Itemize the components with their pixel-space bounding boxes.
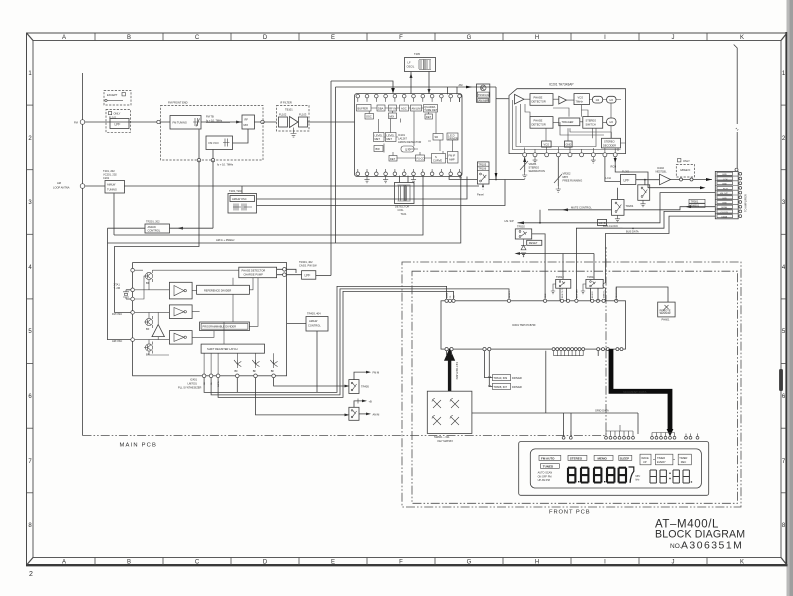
amp buffer box 1 bbox=[169, 282, 192, 299]
svg-text:9A: 9A bbox=[488, 375, 491, 379]
wire bus DATA bbox=[218, 291, 453, 397]
amp buffer box 2 bbox=[169, 305, 192, 319]
ground VR202 bbox=[556, 186, 561, 192]
node front end bottom right bbox=[211, 159, 214, 162]
svg-text:AM/FM DETECTOR: AM/FM DETECTOR bbox=[398, 140, 421, 144]
svg-text:GND: GND bbox=[722, 203, 727, 205]
block AM/LW CONTROL bbox=[145, 224, 170, 233]
svg-text:TR401, 402: TR401, 402 bbox=[299, 260, 313, 264]
wires latch pins down bbox=[204, 353, 218, 374]
svg-text:FM M: FM M bbox=[373, 371, 380, 375]
svg-text:DATA: DATA bbox=[446, 292, 449, 298]
svg-text:KEY MATRIX: KEY MATRIX bbox=[438, 439, 454, 443]
scan smudge on right frame bbox=[779, 369, 783, 391]
LCD glass outline bbox=[530, 449, 701, 488]
wire LCH out bbox=[605, 157, 621, 182]
transistor latch out c bbox=[270, 360, 277, 373]
svg-text:S: S bbox=[435, 155, 437, 159]
svg-text:ON OFF PM: ON OFF PM bbox=[538, 475, 552, 478]
svg-text:TUNING: TUNING bbox=[107, 188, 117, 192]
filter FL102 bbox=[279, 117, 288, 127]
svg-text:AM: AM bbox=[459, 83, 463, 87]
svg-text:fo + 10. 7MHz: fo + 10. 7MHz bbox=[217, 163, 234, 167]
wire AM/LW control line bbox=[108, 227, 214, 229]
svg-text:A: A bbox=[62, 35, 66, 41]
switch TR204 mute R bbox=[612, 200, 634, 216]
wire AM osc out 1 bbox=[257, 177, 468, 200]
wire TR405 out FM M bbox=[354, 372, 366, 380]
block STEREO SWITCH bbox=[583, 117, 603, 129]
block T101 detector coil bbox=[395, 183, 415, 204]
svg-text:PROGRAMMABLE DIVIDER: PROGRAMMABLE DIVIDER bbox=[203, 325, 237, 329]
svg-text:COIL: COIL bbox=[398, 208, 405, 212]
svg-text:GRID DATA: GRID DATA bbox=[595, 408, 609, 412]
amp loop filter triangle bbox=[559, 96, 567, 104]
connector row label cells bbox=[717, 172, 733, 218]
svg-text:MIX: MIX bbox=[244, 123, 249, 127]
wire AM line to amp bbox=[336, 86, 497, 88]
7seg digit seven bbox=[629, 467, 634, 483]
border thick bottom line bbox=[26, 564, 788, 566]
block AM/LW TUNING bbox=[105, 181, 125, 194]
svg-text:J: J bbox=[672, 35, 675, 41]
pot VR202 wire bbox=[557, 157, 559, 186]
box EXCEPT variant note bbox=[104, 91, 131, 106]
svg-text:PH601: PH601 bbox=[662, 318, 670, 322]
filter LPF FM input bbox=[110, 119, 129, 129]
block FS-CO bbox=[416, 155, 425, 161]
block GND small bbox=[565, 141, 573, 147]
svg-text:PHASE: PHASE bbox=[534, 96, 543, 100]
svg-text:CLOCK: CLOCK bbox=[721, 212, 729, 214]
svg-text:FM: FM bbox=[74, 121, 78, 125]
wires TR612 pins bbox=[560, 254, 567, 301]
wires latch to transistors bbox=[237, 353, 273, 364]
svg-text:KEY RETURN: KEY RETURN bbox=[455, 362, 459, 379]
right numbers 1-8 bbox=[782, 71, 786, 529]
pins IC601 top bbox=[445, 299, 618, 302]
divider 1/2 b bbox=[607, 96, 616, 103]
block BUFFER bbox=[357, 105, 372, 112]
svg-text:76kHz: 76kHz bbox=[576, 99, 584, 103]
svg-text:AM/LW: AM/LW bbox=[107, 183, 116, 187]
svg-text:AM/LW: AM/LW bbox=[148, 225, 157, 229]
block MIX bbox=[389, 113, 397, 119]
wire AM line bbox=[85, 185, 479, 187]
svg-text:BW: BW bbox=[376, 147, 381, 151]
wire HS S/P bbox=[518, 193, 716, 223]
wire FM antenna vertical bbox=[734, 45, 738, 170]
block key drivers TR610 609 bbox=[488, 375, 522, 390]
svg-text:T205: T205 bbox=[414, 52, 420, 56]
left tick marks bbox=[27, 105, 34, 493]
wire LPF to tune line bbox=[316, 275, 331, 277]
label TR501 SW501 bbox=[689, 199, 705, 207]
wire BUS DATA bbox=[606, 216, 716, 301]
svg-text:LOOP ANTNA: LOOP ANTNA bbox=[53, 186, 70, 190]
svg-text:SW501: SW501 bbox=[691, 204, 700, 208]
svg-text:7. 2M: 7. 2M bbox=[114, 286, 121, 290]
svg-text:RCH: RCH bbox=[723, 188, 728, 190]
scan shadow band right edge bbox=[787, 0, 793, 596]
svg-text:DETECTOR: DETECTOR bbox=[395, 205, 409, 209]
svg-text:BF: BF bbox=[271, 369, 275, 373]
svg-text:PHASE: PHASE bbox=[534, 119, 543, 123]
ground VR201 bbox=[522, 172, 527, 178]
block REFERENCE DIVIDER bbox=[197, 285, 250, 294]
wire RCH out bbox=[615, 157, 700, 188]
transistor latch out a bbox=[234, 360, 241, 373]
svg-text:C: C bbox=[195, 560, 200, 566]
node AM antenna terminal bbox=[80, 184, 85, 189]
svg-text:SENSOR: SENSOR bbox=[660, 311, 671, 315]
svg-text:CHARGE PUMP: CHARGE PUMP bbox=[244, 273, 264, 277]
svg-text:TUNED: TUNED bbox=[543, 464, 554, 468]
svg-text:FRONT PCB: FRONT PCB bbox=[549, 510, 591, 516]
transistor latch out b bbox=[252, 360, 259, 373]
block phase detector 1 bbox=[530, 94, 553, 106]
svg-text:HS. S/P: HS. S/P bbox=[505, 219, 514, 223]
svg-text:CONTROL: CONTROL bbox=[148, 229, 161, 233]
divider 1/2 c bbox=[607, 118, 616, 126]
wire AM fo line bbox=[108, 176, 461, 243]
clock decimal bbox=[691, 481, 692, 482]
wire into IC201 buffer bbox=[496, 98, 509, 100]
svg-text:MAIN B+: MAIN B+ bbox=[603, 289, 606, 298]
label RESET boxed bbox=[527, 240, 542, 245]
indicator FM AUTO bbox=[539, 455, 561, 460]
IC IC401 outline bbox=[133, 263, 287, 376]
block LEVEL MET1 bbox=[374, 133, 385, 142]
svg-text:E: E bbox=[331, 35, 335, 41]
svg-text:FS-CO: FS-CO bbox=[417, 157, 425, 161]
svg-text:DATA: DATA bbox=[217, 381, 220, 387]
svg-text:TR610, 609: TR610, 609 bbox=[494, 376, 508, 380]
wires PLL internal bbox=[135, 270, 258, 355]
svg-text:B: B bbox=[127, 560, 131, 566]
display connector pins bbox=[562, 436, 699, 439]
indicator TIMER EVERY bbox=[656, 454, 673, 465]
wire AGC line to IC101 bbox=[114, 176, 423, 235]
svg-text:FM OSC: FM OSC bbox=[112, 312, 122, 316]
svg-text:FM IF: FM IF bbox=[449, 154, 456, 158]
left numbers 1-8 bbox=[28, 71, 32, 529]
svg-text:TURE DET: TURE DET bbox=[424, 108, 437, 112]
wire GRID DATA bbox=[598, 351, 638, 434]
FRONT PCB boundary chain outer bbox=[402, 262, 741, 507]
node PLL charge pump out a bbox=[283, 268, 287, 272]
amp MPX input buffer bbox=[515, 94, 525, 104]
svg-text:FM VCO: FM VCO bbox=[209, 141, 219, 145]
svg-text:IF FILTER: IF FILTER bbox=[280, 101, 292, 105]
svg-text:LF: LF bbox=[408, 61, 411, 65]
svg-text:TR608, 607: TR608, 607 bbox=[494, 385, 508, 389]
svg-text:FM TUNING: FM TUNING bbox=[173, 121, 187, 125]
svg-text:TO AMPLIFIER: TO AMPLIFIER bbox=[744, 194, 748, 212]
wire T205 to IC101 pins bbox=[411, 72, 429, 95]
svg-text:BF: BF bbox=[146, 327, 150, 331]
svg-text:HIGH: HIGH bbox=[722, 207, 728, 209]
wire bus CE bbox=[204, 286, 447, 392]
wire FM osc to PLL bbox=[115, 160, 200, 312]
svg-text:SLEEP: SLEEP bbox=[620, 456, 629, 460]
svg-text:STEREO: STEREO bbox=[604, 139, 615, 143]
wires drivers bbox=[485, 351, 493, 387]
svg-text:K: K bbox=[740, 35, 744, 41]
transistor buffer b bbox=[144, 316, 153, 331]
block LPF small bbox=[542, 141, 552, 147]
svg-text:D: D bbox=[263, 560, 268, 566]
wire AM amp down to composite bbox=[495, 87, 497, 180]
svg-text:AUTO SCAN: AUTO SCAN bbox=[538, 471, 553, 474]
top letters A-K bbox=[62, 35, 744, 41]
transistor TR406 bbox=[349, 407, 359, 420]
MAIN PCB boundary chain box bbox=[83, 247, 607, 436]
node FM junction bbox=[157, 120, 160, 123]
svg-text:AM OSC: AM OSC bbox=[112, 339, 122, 343]
clock colon bbox=[669, 473, 670, 474]
svg-text:DRIVER: DRIVER bbox=[448, 136, 458, 140]
node PLL charge pump out b bbox=[283, 273, 287, 277]
indicator SLEEP bbox=[619, 455, 632, 460]
FRONT PCB boundary chain inner bbox=[412, 271, 738, 503]
ground pins IC101 bottom bbox=[364, 176, 369, 183]
svg-text:TR405: TR405 bbox=[361, 385, 369, 389]
top tick marks bbox=[95, 33, 707, 41]
indicator WAKE UP bbox=[640, 454, 651, 465]
block SHIFT REGISTER LATCH bbox=[201, 344, 264, 353]
svg-text:STEREO: STEREO bbox=[586, 119, 597, 123]
connector row labels bbox=[720, 174, 729, 218]
box ONLY variant note bbox=[106, 110, 131, 133]
svg-text:C201: C201 bbox=[103, 176, 110, 180]
svg-text:RF: RF bbox=[245, 118, 249, 122]
svg-text:GND: GND bbox=[722, 174, 727, 176]
wire FM line bbox=[85, 121, 355, 123]
ground TR203 bbox=[640, 200, 645, 207]
wire detector coil leads bbox=[400, 176, 409, 183]
wire bus CL bbox=[211, 289, 509, 395]
svg-text:BUS CL O: BUS CL O bbox=[562, 288, 564, 298]
amp buffer box 3 bbox=[169, 331, 192, 345]
svg-text:VC201, 202: VC201, 202 bbox=[103, 173, 117, 177]
wire pin6 to TR405 bbox=[274, 378, 345, 386]
svg-text:AM AMP: AM AMP bbox=[479, 98, 489, 102]
block DET2 bbox=[389, 156, 397, 162]
svg-text:SHIFT REGISTER LATCH: SHIFT REGISTER LATCH bbox=[207, 347, 238, 351]
box IF FILTER dashed bbox=[277, 106, 310, 132]
svg-text:IC202: IC202 bbox=[657, 166, 664, 170]
svg-text:SEGMENT DATA: SEGMENT DATA bbox=[623, 390, 647, 394]
svg-text:LA1267: LA1267 bbox=[398, 137, 408, 141]
svg-text:SW601 ~ 611: SW601 ~ 611 bbox=[434, 435, 450, 439]
svg-text:LEVEL: LEVEL bbox=[387, 134, 396, 138]
wire VCO bottom stubs bbox=[199, 130, 213, 161]
svg-text:REC: REC bbox=[681, 460, 687, 464]
svg-text:B: B bbox=[127, 35, 131, 41]
svg-text:MAIN PCB: MAIN PCB bbox=[120, 443, 158, 449]
block FM VCO bbox=[206, 136, 233, 150]
transistor buffer c bbox=[144, 342, 153, 357]
svg-text:TR105: TR105 bbox=[478, 162, 486, 166]
corner diagonal bottom-right bbox=[781, 558, 787, 565]
svg-text:STEREO: STEREO bbox=[529, 166, 540, 170]
connector to amplifier outline bbox=[715, 171, 738, 218]
svg-text:AGC: AGC bbox=[401, 107, 407, 111]
svg-text:DBA: DBA bbox=[378, 107, 384, 111]
svg-text:DETECTOR: DETECTOR bbox=[532, 100, 546, 104]
wire into IC101 pin1 bbox=[331, 81, 393, 92]
svg-text:RF IN: RF IN bbox=[389, 107, 396, 111]
wire mute L tap bbox=[644, 180, 646, 185]
svg-text:BUS CLOCK: BUS CLOCK bbox=[603, 224, 618, 228]
svg-text:BUS WR I: BUS WR I bbox=[576, 288, 578, 298]
svg-text:PLL SYNTHESIZER: PLL SYNTHESIZER bbox=[178, 386, 202, 390]
svg-text:DET: DET bbox=[390, 157, 396, 161]
svg-text:DATA: DATA bbox=[722, 216, 728, 219]
wires IC101 internal bbox=[358, 98, 460, 102]
svg-text:K: K bbox=[740, 560, 744, 566]
block VCO 76kHz bbox=[574, 94, 589, 105]
box FM FRONT END dashed bbox=[161, 106, 264, 161]
block T205 LF oscil coil bbox=[405, 58, 436, 72]
svg-text:TIMER: TIMER bbox=[657, 456, 665, 460]
svg-text:G: G bbox=[467, 560, 472, 566]
svg-text:FL103: FL103 bbox=[299, 113, 307, 117]
wire TR406 out AM M bbox=[359, 413, 366, 415]
svg-text:CONTROL: CONTROL bbox=[308, 324, 321, 328]
svg-text:GB'EE'O: GB'EE'O bbox=[680, 168, 690, 172]
svg-text:LPF: LPF bbox=[305, 274, 311, 278]
pins IC101 bottom row bbox=[356, 172, 461, 176]
svg-text:SWITCH: SWITCH bbox=[586, 123, 596, 127]
wire mute to HS tap bbox=[539, 210, 541, 223]
corner diagonal bottom-left bbox=[27, 558, 33, 565]
svg-text:D: D bbox=[263, 35, 268, 41]
block RF MIX bbox=[242, 115, 255, 129]
svg-text:LM7001: LM7001 bbox=[188, 382, 198, 386]
wire audio to connector bbox=[671, 179, 713, 181]
corner diagonal top-left bbox=[27, 34, 33, 41]
node IF junction bbox=[261, 120, 264, 123]
svg-text:9A: 9A bbox=[488, 384, 491, 388]
ground TR204 bbox=[615, 215, 620, 222]
filter FL103 bbox=[299, 117, 308, 127]
svg-text:J: J bbox=[672, 560, 675, 566]
pot VR201 wire bbox=[524, 157, 526, 172]
svg-text:FM AUTO: FM AUTO bbox=[541, 456, 555, 460]
wire AM osc to PLL bbox=[108, 243, 134, 340]
svg-text:MUTE CONTROL: MUTE CONTROL bbox=[571, 205, 592, 209]
svg-text:MPX: MPX bbox=[563, 175, 569, 179]
svg-text:AM fo + 450kHz: AM fo + 450kHz bbox=[216, 238, 235, 242]
pins IC601 bottom bbox=[445, 348, 623, 351]
svg-text:FL102: FL102 bbox=[279, 113, 287, 117]
wire VCO to mixer bbox=[233, 129, 249, 143]
block AGC bbox=[400, 105, 409, 111]
svg-text:F: F bbox=[399, 35, 403, 41]
block BW bbox=[374, 146, 383, 152]
svg-text:EVERY: EVERY bbox=[657, 460, 666, 464]
ground TR611 bbox=[581, 284, 586, 294]
pins IC101 top row bbox=[356, 94, 461, 98]
wire pin5 to TR406 bbox=[256, 378, 345, 415]
svg-text:RESET: RESET bbox=[529, 241, 538, 245]
svg-text:1/2: 1/2 bbox=[609, 120, 613, 124]
svg-text:REFERENCE DIVIDER: REFERENCE DIVIDER bbox=[204, 288, 231, 292]
svg-text:UP: UP bbox=[643, 460, 647, 464]
svg-text:MEMO: MEMO bbox=[598, 456, 608, 460]
wire TR204 top to RCH line bbox=[617, 188, 619, 200]
wire grid pins bus bbox=[564, 425, 633, 436]
wire +B bbox=[354, 401, 362, 407]
svg-text:RCH: RCH bbox=[611, 165, 617, 169]
svg-text:AM LIM: AM LIM bbox=[412, 107, 421, 111]
switch TR203 mute L bbox=[638, 185, 650, 201]
svg-text:BLOCK DIAGRAM: BLOCK DIAGRAM bbox=[655, 529, 745, 541]
indicator MEMO bbox=[594, 455, 613, 460]
svg-text:DET: DET bbox=[426, 115, 432, 119]
wires segment pin stubs bbox=[554, 351, 584, 356]
bottom tick marks bbox=[95, 558, 707, 566]
transistor TR405 bbox=[349, 380, 369, 394]
block LED DRIVER bbox=[447, 133, 458, 140]
switch FM/AM select TR105 bbox=[477, 162, 489, 184]
node FM antenna terminal bbox=[80, 120, 85, 125]
indicator TIMER REC bbox=[678, 454, 691, 465]
svg-text:CURVE: CURVE bbox=[433, 159, 442, 163]
block QUADRATURE DET bbox=[424, 105, 438, 113]
indicator STEREO bbox=[568, 455, 587, 460]
svg-text:MET: MET bbox=[375, 137, 381, 141]
diode reset bbox=[521, 239, 526, 257]
block LEVEL MET2 bbox=[386, 133, 397, 142]
svg-text:AM/LW: AM/LW bbox=[309, 319, 318, 323]
svg-text:T101: T101 bbox=[401, 212, 407, 216]
svg-text:TB101: TB101 bbox=[285, 108, 293, 112]
right tick marks bbox=[781, 105, 787, 493]
svg-text:WAKE: WAKE bbox=[641, 456, 649, 460]
svg-text:FL201: FL201 bbox=[622, 170, 630, 174]
svg-text:NO.: NO. bbox=[670, 543, 682, 550]
ground TR612 bbox=[551, 284, 556, 294]
pins IC201 bottom row bbox=[523, 153, 618, 157]
svg-text:IC101: IC101 bbox=[398, 133, 405, 137]
7seg frequency digits 88888 bbox=[568, 468, 626, 483]
block TR101 102 AM RF AMP bbox=[477, 84, 490, 102]
svg-text:PHASE DETECTOR: PHASE DETECTOR bbox=[242, 269, 266, 273]
block AM/LW OSC bbox=[228, 194, 257, 214]
svg-text:TR502: TR502 bbox=[517, 225, 525, 229]
divider 1/2 a bbox=[592, 96, 602, 103]
svg-text:OSC: OSC bbox=[366, 115, 372, 119]
IC IC201 outline bbox=[509, 89, 626, 154]
svg-text:AMP: AMP bbox=[449, 158, 455, 162]
connector pins right bbox=[739, 172, 742, 217]
svg-text:SEPARATION: SEPARATION bbox=[529, 169, 545, 173]
box ONLY GB dashed bbox=[678, 159, 681, 162]
wire remote sensor link bbox=[616, 287, 668, 302]
svg-text:BUS DATA: BUS DATA bbox=[626, 229, 639, 233]
amp IF buffer triangle bbox=[290, 117, 299, 128]
svg-text:AM: AM bbox=[57, 181, 61, 185]
svg-text:DRIVER: DRIVER bbox=[512, 376, 522, 380]
arrow KEY RETURN bbox=[447, 352, 453, 391]
svg-text:CASS. PW SW: CASS. PW SW bbox=[299, 264, 317, 268]
svg-text:ONLY: ONLY bbox=[114, 112, 121, 116]
wire TR502 to reset line bbox=[532, 234, 545, 301]
block Q.D bbox=[401, 146, 414, 152]
